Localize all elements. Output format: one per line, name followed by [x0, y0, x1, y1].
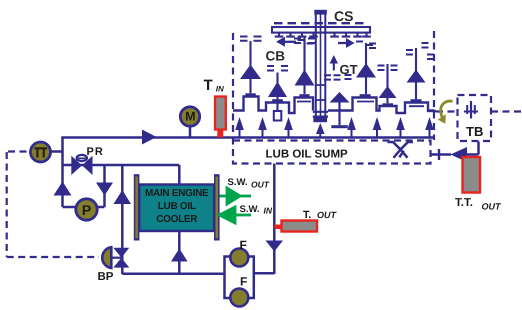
svg-text:CB: CB — [266, 49, 286, 64]
svg-text:TB: TB — [466, 124, 483, 139]
svg-text:M: M — [185, 109, 195, 123]
svg-text:IN: IN — [264, 206, 273, 216]
svg-text:T.: T. — [303, 209, 311, 221]
svg-text:S.W.: S.W. — [240, 204, 260, 215]
svg-text:IN: IN — [216, 85, 224, 94]
svg-text:S.W.: S.W. — [228, 177, 248, 188]
svg-text:OUT: OUT — [251, 180, 270, 190]
svg-text:MAIN ENGINE: MAIN ENGINE — [145, 188, 209, 199]
svg-text:CS: CS — [334, 8, 353, 24]
svg-text:LUB OIL SUMP: LUB OIL SUMP — [266, 149, 349, 161]
svg-text:COOLER: COOLER — [156, 214, 198, 225]
svg-text:BP: BP — [98, 271, 114, 283]
svg-text:OUT: OUT — [317, 210, 338, 220]
svg-text:PR: PR — [87, 146, 104, 158]
svg-text:OUT: OUT — [482, 202, 503, 212]
svg-text:F: F — [240, 238, 247, 252]
svg-text:T.T.: T.T. — [455, 197, 473, 209]
svg-text:LUB OIL: LUB OIL — [158, 201, 196, 212]
svg-text:F: F — [240, 275, 247, 289]
svg-text:T: T — [204, 77, 213, 94]
svg-text:P: P — [82, 202, 91, 218]
